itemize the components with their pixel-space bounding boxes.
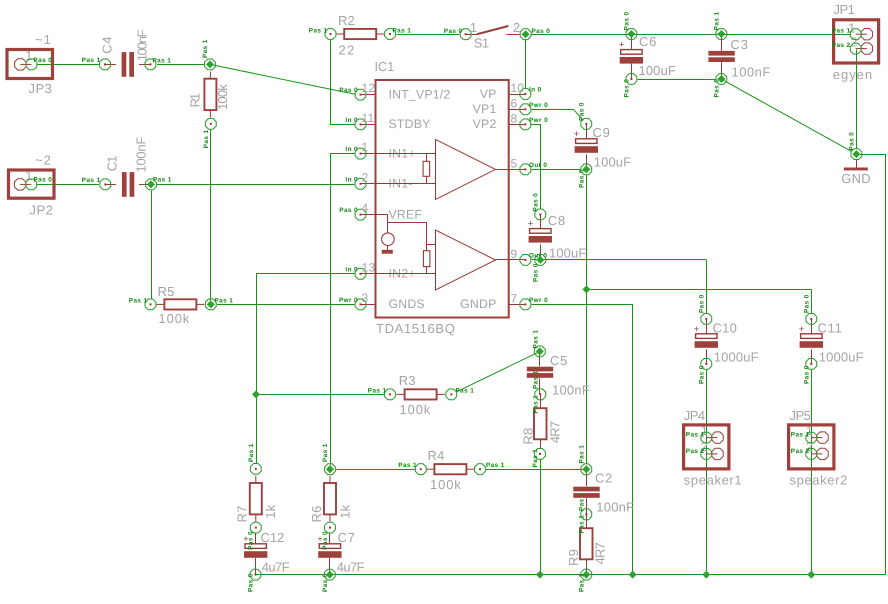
- svg-text:JP1: JP1: [834, 2, 856, 17]
- svg-text:Pas 1: Pas 1: [82, 57, 101, 64]
- junction node C1 right / IN1- net: [146, 179, 157, 190]
- svg-text:Pas 1: Pas 1: [532, 370, 539, 389]
- svg-text:Pas 1: Pas 1: [309, 28, 328, 35]
- svg-text:JP3: JP3: [29, 81, 53, 96]
- svg-text:Pas 1: Pas 1: [129, 297, 148, 304]
- svg-text:In 0: In 0: [529, 87, 542, 94]
- svg-text:Out 0: Out 0: [529, 162, 547, 169]
- IC1 pin 1 IN1+: [345, 140, 415, 160]
- wire net: C10 bottom through JP4 to bottom rail: [706, 370, 708, 575]
- resistor R8 4R7 (vertical): [521, 394, 563, 467]
- svg-text:Pas 1: Pas 1: [398, 462, 417, 469]
- connector JP3: [7, 32, 53, 96]
- svg-text:Pas 0: Pas 0: [248, 573, 255, 592]
- svg-text:R3: R3: [399, 373, 416, 388]
- VREF internal network: [376, 215, 395, 254]
- junction node speaker2 rail: [807, 571, 815, 579]
- wire net ~1: C4 to R1 top node: [157, 64, 204, 66]
- junction node R5 right: [205, 299, 216, 310]
- wire net: down to C11 top: [811, 289, 813, 313]
- IC1 pin 2 IN1-: [345, 170, 412, 190]
- svg-text:1: 1: [470, 20, 477, 35]
- svg-text:Pas 1: Pas 1: [215, 297, 234, 304]
- wire net: IC pin 6 VP1 to C9 plus (diagonal): [532, 110, 583, 120]
- junction node S1 pin 2 / VP net: [520, 29, 531, 40]
- junction node C7 bottom rail: [324, 569, 335, 580]
- wire net GND: C3 bottom diagonal to gnd node: [724, 80, 852, 151]
- svg-text:C9: C9: [593, 125, 611, 140]
- svg-text:4R7: 4R7: [548, 421, 563, 444]
- svg-text:100nF: 100nF: [135, 29, 150, 61]
- junction node R8 bottom rail: [536, 571, 544, 579]
- wire net: rail node to C11 top: [586, 289, 811, 291]
- svg-text:Pas 0: Pas 0: [444, 28, 463, 35]
- svg-text:Pas 0: Pas 0: [532, 28, 551, 35]
- svg-text:Pas 1: Pas 1: [82, 177, 101, 184]
- svg-text:S1: S1: [474, 36, 490, 51]
- svg-text:Pas 1: Pas 1: [202, 39, 209, 58]
- wire net: node R1top to IC pin 12 (diagonal): [211, 65, 356, 95]
- capacitor C1 100nF: [82, 137, 172, 197]
- svg-text:C12: C12: [261, 530, 285, 545]
- svg-text:VP1: VP1: [473, 102, 497, 116]
- svg-text:4u7F: 4u7F: [262, 559, 290, 574]
- svg-text:Pas 1: Pas 1: [532, 449, 539, 468]
- svg-text:12: 12: [362, 81, 376, 95]
- junction node GNDP rail: [629, 571, 637, 579]
- wire net: JP1 pin2 down to GND node: [856, 50, 858, 150]
- svg-text:Pas 1: Pas 1: [368, 387, 387, 394]
- svg-text:Pas 1: Pas 1: [791, 432, 810, 439]
- resistor R1 100k (vertical): [188, 39, 231, 148]
- wire net GNDS: R5 node to IC pin 3: [217, 304, 355, 306]
- junction node C3 top: [716, 29, 727, 40]
- junction node C3 bottom: [716, 74, 727, 85]
- junction node C6 top: [626, 29, 637, 40]
- svg-text:2: 2: [850, 35, 857, 50]
- wire net GND: right edge vertical rail: [885, 154, 887, 574]
- junction node IN2+/R7/R3: [252, 390, 260, 398]
- capacitor C11 1000uF (electrolytic): [799, 294, 864, 384]
- svg-text:C7: C7: [338, 530, 356, 545]
- svg-text:In 0: In 0: [345, 176, 358, 183]
- svg-text:C4: C4: [100, 36, 115, 54]
- svg-text:Pas 0: Pas 0: [248, 531, 255, 550]
- ground symbol GND: [841, 132, 871, 186]
- junction node C8 bottom / pin 9: [535, 255, 546, 266]
- svg-text:100k: 100k: [215, 84, 230, 110]
- wire net OUT2: IC pin 9 - C8 node - right to C10: [532, 259, 707, 261]
- junction node C5 top: [534, 346, 545, 357]
- svg-text:2: 2: [362, 170, 369, 184]
- svg-text:6: 6: [511, 96, 518, 110]
- junction node C2 top / R4: [581, 464, 592, 475]
- svg-text:3: 3: [362, 291, 369, 305]
- svg-text:4R7: 4R7: [593, 542, 608, 565]
- IC1 pin 4 VREF: [339, 201, 422, 221]
- svg-text:VP2: VP2: [473, 117, 497, 131]
- svg-text:100nF: 100nF: [732, 64, 771, 79]
- wire net: R1 bottom to R5 right node: [210, 130, 212, 301]
- svg-text:speaker2: speaker2: [790, 473, 848, 488]
- resistor R2 22: [309, 13, 411, 57]
- resistor R9 4R7 (vertical): [566, 514, 608, 592]
- junction node R9 bottom rail: [581, 569, 592, 580]
- wire net GND: gnd node to right edge rail: [860, 154, 886, 156]
- resistor R3 100k: [368, 373, 474, 417]
- svg-text:100uF: 100uF: [639, 63, 677, 78]
- capacitor C7 4u7F (electrolytic): [317, 530, 365, 592]
- svg-text:C2: C2: [595, 471, 613, 486]
- IC1 pin 8 VP2: [473, 111, 548, 131]
- svg-text:In 0: In 0: [345, 117, 358, 124]
- wire net: node to R3 left pin: [256, 394, 384, 396]
- svg-text:Pas 0: Pas 0: [623, 12, 630, 31]
- wire net: R2 left pin down to IC pin 11: [331, 40, 355, 124]
- svg-text:~2: ~2: [35, 153, 51, 168]
- wire net OUT1: IC pin 5 to C9 bottom node: [532, 169, 581, 171]
- svg-text:1k: 1k: [338, 504, 353, 518]
- svg-text:Pwr 0: Pwr 0: [529, 117, 548, 124]
- wire net: C11 bottom through JP5 to bottom rail: [811, 370, 813, 575]
- svg-text:1000uF: 1000uF: [714, 349, 759, 364]
- svg-text:Pas 0: Pas 0: [322, 531, 329, 550]
- wire net: R6 top node to R4 left pin: [336, 469, 415, 471]
- junction node GND: [851, 149, 862, 160]
- svg-text:JP2: JP2: [30, 203, 54, 218]
- junction node main rail to C11 wire: [582, 285, 590, 293]
- capacitor C8 100uF (electrolytic): [528, 193, 587, 282]
- svg-text:1k: 1k: [263, 504, 278, 518]
- wire net GNDP: IC pin 7 right then down to bottom rail: [532, 305, 633, 575]
- capacitor C10 1000uF (electrolytic): [694, 294, 759, 384]
- svg-text:GNDS: GNDS: [389, 297, 425, 311]
- svg-text:Pas 0: Pas 0: [698, 294, 705, 313]
- svg-text:100nF: 100nF: [596, 499, 634, 514]
- svg-text:Pas 0: Pas 0: [532, 193, 539, 212]
- wire net: R4 right pin to C2 top node: [486, 469, 586, 471]
- svg-text:GNDP: GNDP: [460, 297, 496, 311]
- svg-text:IC1: IC1: [375, 59, 395, 74]
- svg-text:R5: R5: [158, 284, 175, 299]
- svg-text:Pas 1: Pas 1: [456, 387, 475, 394]
- capacitor C5 100nF: [527, 330, 590, 400]
- svg-text:Pas 0: Pas 0: [848, 132, 855, 151]
- wire net: S1 pin2 down to IC pin 10 (VP): [525, 40, 527, 88]
- svg-text:100uF: 100uF: [549, 245, 587, 260]
- capacitor C12 4u7F (electrolytic): [243, 530, 290, 592]
- resistor R7 1k (vertical): [234, 443, 278, 533]
- wire net: IC pin 13 IN2+ left and down to R7 top: [257, 274, 355, 464]
- wire net: C1 to IC pin 2 IN1-: [157, 184, 355, 186]
- svg-text:Pas 1: Pas 1: [322, 443, 329, 462]
- svg-text:1: 1: [25, 48, 32, 63]
- wire net: R3 right pin diagonal up to C5 top node: [457, 353, 538, 392]
- op-amp A1 inside IC1: [376, 139, 509, 199]
- svg-text:In 0: In 0: [345, 146, 358, 153]
- svg-text:Pas 0: Pas 0: [339, 207, 358, 214]
- capacitor C4 100nF: [82, 29, 171, 77]
- wire net: IC pin 8 VP2 to C8 plus: [532, 125, 541, 209]
- svg-text:1000uF: 1000uF: [819, 349, 864, 364]
- svg-text:11: 11: [362, 111, 375, 125]
- svg-text:10: 10: [511, 81, 525, 95]
- IC1 pin 3 GNDS: [339, 291, 425, 311]
- internal resistor op-amp A1: [423, 154, 430, 184]
- wire net: C9 bottom node down to C2 top node (main rail): [586, 175, 588, 463]
- svg-text:GND: GND: [841, 171, 871, 186]
- svg-text:C10: C10: [713, 321, 738, 336]
- svg-text:C3: C3: [731, 37, 749, 52]
- svg-text:R9: R9: [566, 549, 581, 566]
- svg-text:100nF: 100nF: [552, 382, 590, 397]
- capacitor C6 100uF (electrolytic): [619, 12, 676, 98]
- junction node C9 bottom / OUT1: [581, 164, 592, 175]
- svg-text:TDA1516BQ: TDA1516BQ: [376, 321, 455, 336]
- junction node R6 top / IN1+/R4: [325, 464, 336, 475]
- svg-text:VREF: VREF: [389, 207, 423, 221]
- wire net GND: C6 bottom to C3 bottom: [638, 79, 716, 81]
- svg-text:C6: C6: [639, 34, 657, 49]
- svg-text:Pas 1: Pas 1: [686, 432, 705, 439]
- svg-text:R7: R7: [234, 505, 249, 522]
- svg-text:Pas 1: Pas 1: [486, 462, 505, 469]
- svg-text:R8: R8: [521, 428, 536, 445]
- IC1 pin 10 VP: [480, 81, 542, 101]
- svg-text:INT_VP1/2: INT_VP1/2: [389, 87, 451, 101]
- connector JP5 speaker2: [789, 408, 848, 488]
- svg-text:C8: C8: [548, 213, 566, 228]
- svg-text:C1: C1: [105, 155, 120, 171]
- svg-text:Pas 1: Pas 1: [532, 395, 539, 414]
- connector JP1 egyen: [832, 2, 879, 82]
- IC1 pin 5 OUT: [509, 156, 548, 174]
- svg-text:R2: R2: [338, 13, 355, 28]
- wire net: C1 node down to R5 left pin: [151, 191, 153, 299]
- svg-text:egyen: egyen: [833, 67, 873, 82]
- svg-text:100k: 100k: [400, 402, 431, 417]
- svg-text:1: 1: [25, 168, 32, 183]
- svg-text:9: 9: [511, 247, 518, 261]
- svg-text:8: 8: [511, 111, 518, 125]
- IC1 pin 12 INT_VP1/2: [339, 81, 450, 101]
- svg-text:Pas 0: Pas 0: [532, 263, 539, 282]
- svg-text:speaker1: speaker1: [684, 473, 742, 488]
- switch S1: [444, 20, 550, 51]
- svg-text:Pas 0: Pas 0: [34, 177, 53, 184]
- svg-text:Pas 0: Pas 0: [578, 102, 585, 121]
- IC1 pin 7 GNDP: [460, 291, 548, 311]
- svg-text:7: 7: [511, 291, 518, 305]
- svg-text:Pwr 0: Pwr 0: [529, 102, 548, 109]
- wire net: down to C10 top: [706, 260, 708, 313]
- svg-text:Pas 0: Pas 0: [339, 87, 358, 94]
- capacitor C9 100uF (electrolytic): [574, 102, 632, 188]
- svg-text:Pas 1: Pas 1: [153, 57, 172, 64]
- svg-text:Pas 0: Pas 0: [803, 294, 810, 313]
- svg-text:100nF: 100nF: [134, 137, 149, 173]
- wire net: IC pin 1 IN1+ left and down to R6 top node: [331, 154, 355, 466]
- IC1 pin 11 STDBY: [345, 111, 430, 131]
- svg-text:100uF: 100uF: [594, 154, 632, 169]
- capacitor C2 100nF: [573, 445, 634, 520]
- svg-text:Pwr 0: Pwr 0: [339, 297, 358, 304]
- svg-text:Pas 1: Pas 1: [578, 492, 585, 511]
- svg-text:Pas 0: Pas 0: [623, 79, 630, 98]
- svg-text:2: 2: [513, 20, 520, 35]
- connector JP4 speaker1: [684, 408, 742, 488]
- svg-text:4u7F: 4u7F: [337, 559, 365, 574]
- IC1 pin 6 VP1: [473, 96, 548, 116]
- connector JP2: [9, 153, 55, 218]
- svg-text:5: 5: [511, 156, 518, 170]
- capacitor C3 100nF: [708, 12, 770, 98]
- svg-text:Pas 1: Pas 1: [393, 28, 412, 35]
- svg-text:100k: 100k: [159, 311, 190, 326]
- svg-text:VP: VP: [480, 87, 497, 101]
- op-amp A2 inside IC1: [376, 230, 509, 290]
- svg-text:13: 13: [362, 260, 376, 274]
- svg-text:R6: R6: [309, 505, 324, 522]
- resistor R4 100k: [398, 448, 504, 492]
- svg-text:R1: R1: [188, 93, 203, 108]
- svg-text:Pas 1: Pas 1: [203, 130, 210, 149]
- wire net GND: bottom rail: [256, 574, 886, 576]
- svg-text:100k: 100k: [430, 477, 461, 492]
- svg-text:C5: C5: [550, 353, 568, 368]
- svg-text:22: 22: [339, 43, 355, 58]
- IC1 pin 9 OUT: [509, 247, 548, 265]
- svg-text:JP5: JP5: [790, 408, 812, 423]
- junction node speaker1 rail: [702, 571, 710, 579]
- resistor R6 1k (vertical): [309, 443, 353, 533]
- wire net ~1: JP3 to C4: [37, 64, 99, 66]
- wire net: R2 right to S1 pin 1: [397, 34, 460, 36]
- svg-text:Pas 1: Pas 1: [578, 445, 585, 464]
- svg-text:STDBY: STDBY: [389, 117, 431, 131]
- svg-text:Pwr 0: Pwr 0: [529, 297, 548, 304]
- wire net VP: S1 pin2 - C6 - C3 - JP1 pin1: [532, 34, 851, 36]
- resistor R5 100k: [129, 284, 233, 326]
- svg-text:Pas 1: Pas 1: [578, 515, 585, 534]
- svg-text:Pas 1: Pas 1: [832, 27, 851, 34]
- wire net: R8 bottom down to bottom rail: [540, 460, 542, 575]
- IC1 TDA1516BQ power amplifier: [375, 59, 509, 336]
- svg-text:Pas 2: Pas 2: [686, 448, 705, 455]
- svg-text:Pas 0: Pas 0: [34, 57, 53, 64]
- svg-text:Pas 0: Pas 0: [803, 365, 810, 384]
- wire net ~2: JP2 to C1: [37, 184, 99, 186]
- svg-text:Pas 1: Pas 1: [248, 443, 255, 462]
- svg-text:4: 4: [362, 201, 369, 215]
- svg-text:Pas 2: Pas 2: [791, 448, 810, 455]
- junction node R1 top: [205, 59, 216, 70]
- svg-text:Pas 1: Pas 1: [713, 12, 720, 31]
- svg-text:C11: C11: [818, 321, 843, 336]
- svg-text:Pas 2: Pas 2: [832, 42, 851, 49]
- svg-text:~1: ~1: [35, 32, 51, 47]
- svg-text:Pas 0: Pas 0: [698, 365, 705, 384]
- svg-text:JP4: JP4: [684, 408, 706, 423]
- IC1 pin 13 IN2+: [345, 260, 415, 280]
- svg-text:1: 1: [362, 140, 369, 154]
- svg-text:R4: R4: [428, 448, 445, 463]
- internal resistor op-amp A2: [388, 223, 436, 274]
- svg-text:In 0: In 0: [345, 266, 358, 273]
